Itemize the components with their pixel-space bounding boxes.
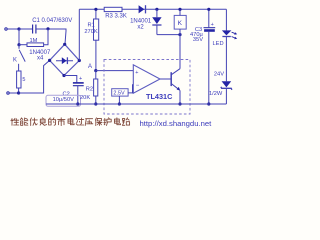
resistor R1	[94, 19, 99, 40]
TL431 dashed box U1	[104, 60, 190, 115]
node bridge top vertex	[63, 43, 66, 46]
wire bridge bottom vertex to C2	[64, 76, 77, 83]
svg-text:2.5V: 2.5V	[113, 91, 125, 97]
wire op-amp output to transistor base	[160, 78, 171, 80]
wire top input to junction	[7, 28, 19, 30]
node bottom-left junction	[17, 91, 20, 94]
relay coil K	[174, 15, 186, 29]
svg-text:5: 5	[22, 77, 25, 83]
node 2.5V ground	[118, 102, 121, 105]
wire bottom terminal to junction	[9, 92, 18, 94]
svg-text:35V: 35V	[193, 37, 203, 43]
svg-text:10μ/50V: 10μ/50V	[53, 97, 75, 103]
svg-text:K: K	[13, 57, 17, 63]
resistor R3	[104, 7, 122, 11]
capacitor C1	[33, 25, 36, 34]
wire R2 top	[95, 71, 97, 79]
svg-text:R1: R1	[88, 23, 95, 29]
wire C3 bottom to ground	[208, 32, 210, 104]
wire 2.5V box to ground	[118, 96, 120, 104]
wire K bottom	[179, 29, 181, 34]
diode D1 1N4001	[139, 5, 146, 13]
svg-text:R2: R2	[86, 87, 93, 93]
wire bottom AC to bridge left vertex	[19, 60, 50, 93]
wire fuse to bottom junction	[18, 88, 20, 93]
svg-text:K: K	[178, 20, 183, 27]
label C2 value box	[46, 95, 81, 106]
resistor R2	[94, 79, 98, 96]
svg-text:R3 3.3K: R3 3.3K	[105, 14, 127, 20]
svg-text:−: −	[136, 83, 140, 89]
wire emitter to ground	[179, 90, 181, 104]
fuse 5	[17, 71, 21, 88]
svg-text:+: +	[79, 76, 82, 82]
wire left vertical down	[18, 29, 20, 45]
svg-text:C1 0.047/630V: C1 0.047/630V	[32, 18, 72, 24]
node C3 ground	[207, 102, 210, 105]
wire junction to C1	[19, 28, 32, 30]
transistor Q1	[171, 69, 180, 91]
wire to 1M	[19, 44, 27, 46]
wire top rail	[79, 8, 226, 10]
wire D2 bottom to relay coil bottom	[157, 34, 180, 36]
svg-text:270K: 270K	[84, 29, 97, 35]
capacitor C3 plates	[204, 28, 216, 32]
reference box 2.5V	[112, 89, 128, 96]
svg-text:24V: 24V	[214, 71, 224, 77]
resistor 1M	[27, 43, 44, 47]
LED	[222, 9, 232, 81]
wire bridge right vertex up to top rail	[78, 9, 80, 60]
caption Chinese watermark	[11, 118, 130, 126]
wire R1 bottom to node A	[95, 40, 97, 70]
LED arrows	[232, 32, 238, 39]
terminal input top-left	[5, 28, 7, 30]
node junction C1 left	[17, 27, 20, 30]
wire TL431 cathode	[179, 35, 181, 69]
wire right vertical of 1M branch	[44, 29, 48, 45]
node A	[94, 69, 97, 72]
svg-text:TL431C: TL431C	[146, 92, 173, 101]
svg-text:LED: LED	[213, 41, 224, 47]
svg-text:1/2W: 1/2W	[209, 91, 223, 97]
node C3 top rail	[207, 8, 210, 11]
node K top rail	[178, 8, 181, 11]
node bridge right vertex	[78, 59, 81, 62]
svg-text:A: A	[88, 64, 92, 70]
wire node A to TL431 ref input	[96, 70, 134, 72]
svg-text:1M: 1M	[30, 38, 38, 44]
svg-text:x4: x4	[37, 56, 44, 62]
node 1M left junction	[17, 43, 20, 46]
svg-text:x2: x2	[137, 24, 144, 30]
wire C1 right to corner and down to bridge top	[36, 29, 66, 44]
diode D2 freewheel	[152, 9, 161, 34]
capacitor C3	[208, 9, 210, 27]
wire contact to fuse	[18, 64, 20, 71]
capacitor C2	[73, 83, 84, 86]
diode inside bridge	[56, 57, 73, 64]
wire ground rail	[46, 103, 226, 105]
wire 2.5V box to minus input	[128, 85, 133, 93]
node relay coil bottom	[178, 33, 181, 36]
svg-text:20K: 20K	[80, 95, 90, 101]
svg-text:+: +	[211, 22, 214, 28]
node bridge bottom vertex	[62, 74, 65, 77]
node D2 top rail	[155, 8, 158, 11]
svg-text:http://xd.shangdu.net: http://xd.shangdu.net	[140, 119, 213, 128]
wire R2 bottom	[95, 96, 97, 104]
op-amp triangle U1	[133, 65, 160, 93]
wire R1 top	[95, 9, 97, 19]
node C2 ground	[76, 102, 79, 105]
svg-text:+: +	[135, 70, 138, 76]
node bridge left vertex	[48, 59, 51, 62]
relay contact K	[18, 45, 20, 49]
bridge rectifier 1N4007 x4	[50, 44, 80, 75]
wire C2 to ground rail	[77, 86, 79, 104]
wire K top	[179, 9, 181, 15]
node R1 top rail	[94, 8, 97, 11]
terminal input bottom-left	[7, 92, 9, 94]
node R2 ground	[94, 102, 97, 105]
zener diode 24V	[221, 81, 232, 104]
node emitter ground	[178, 102, 181, 105]
node C1/1M right junction	[46, 27, 49, 30]
